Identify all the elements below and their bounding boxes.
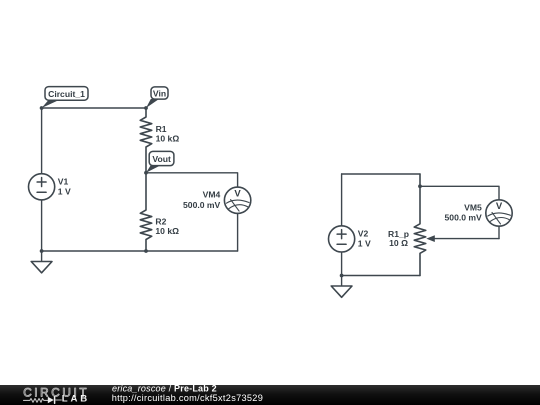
label R1_p 10 Ohm — [388, 229, 409, 248]
svg-text:10 kΩ: 10 kΩ — [156, 134, 180, 144]
resistor R1 — [140, 108, 152, 173]
label VM5 500.0 mV — [445, 202, 483, 222]
wire bottom left horizontal — [42, 250, 238, 252]
label V2 value 1 V — [358, 229, 371, 249]
wire V2 bottom lead — [341, 252, 343, 276]
node label Circuit_1 — [42, 87, 88, 108]
voltmeter VM5 — [486, 200, 512, 226]
potentiometer R1_p — [414, 174, 499, 276]
wire top left horizontal (Circuit_1 node to Vin node) — [42, 107, 146, 109]
svg-text:V1: V1 — [58, 177, 69, 187]
node junction dot (V1 bottom / ground) — [40, 249, 44, 253]
svg-text:V2: V2 — [358, 229, 369, 239]
wire bottom right horizontal — [342, 275, 420, 277]
wire VM5 bottom lead to wiper — [498, 226, 500, 238]
svg-text:VM5: VM5 — [464, 202, 482, 212]
svg-text:1 V: 1 V — [358, 238, 371, 248]
resistor R2 — [140, 173, 152, 251]
ground (right circuit) — [331, 276, 352, 298]
label R1 10 kOhm — [156, 124, 180, 143]
svg-text:erica_roscoe / Pre-Lab 2: erica_roscoe / Pre-Lab 2 — [112, 384, 217, 394]
svg-text:http://circuitlab.com/ckf5xt2s: http://circuitlab.com/ckf5xt2s73529 — [112, 393, 263, 403]
svg-text:10 kΩ: 10 kΩ — [155, 226, 179, 236]
CircuitLab logo resistor zigzag — [24, 399, 48, 403]
svg-text:Vin: Vin — [153, 89, 166, 99]
wire V1 bottom lead — [41, 200, 43, 251]
wire V2 top lead — [341, 174, 343, 226]
svg-text:Circuit_1: Circuit_1 — [48, 89, 85, 99]
node junction dot (R2 bottom) — [144, 249, 148, 253]
node junction dot (R1_p top / VM5 branch) — [418, 184, 422, 188]
node junction dot (Circuit_1) — [40, 106, 44, 110]
wire Vout node to VM4 top — [146, 173, 238, 187]
label R2 10 kOhm — [155, 216, 179, 236]
svg-text:VM4: VM4 — [203, 190, 221, 200]
svg-text:R2: R2 — [155, 216, 166, 226]
svg-text:500.0 mV: 500.0 mV — [445, 213, 483, 223]
wire VM4 bottom lead — [237, 214, 239, 252]
voltage source V2 — [329, 226, 355, 252]
ground (left circuit) — [31, 251, 52, 273]
wire top right horizontal (V2 to R1_p) — [342, 173, 420, 175]
wire V1 top lead — [41, 108, 43, 174]
svg-text:LAB: LAB — [62, 393, 90, 404]
voltage source V1 — [28, 174, 54, 200]
wire R1_p top node to VM5 top — [420, 186, 499, 200]
label VM4 500.0 mV — [183, 190, 221, 210]
CircuitLab logo diode — [48, 397, 62, 404]
voltmeter VM4 — [224, 187, 250, 213]
svg-text:1 V: 1 V — [58, 186, 71, 196]
svg-text:V: V — [496, 201, 503, 212]
node label Vout — [146, 151, 174, 172]
svg-text:V: V — [234, 188, 241, 199]
node label Vin — [146, 87, 168, 108]
svg-text:10 Ω: 10 Ω — [389, 238, 408, 248]
label V1 value 1 V — [58, 177, 71, 197]
node junction dot (Vout) — [144, 171, 148, 175]
footer bar — [0, 385, 540, 405]
node junction dot (V2 bottom / ground) — [340, 274, 344, 278]
node junction dot (Vin) — [144, 106, 148, 110]
svg-text:500.0 mV: 500.0 mV — [183, 200, 221, 210]
svg-text:Vout: Vout — [152, 154, 171, 164]
